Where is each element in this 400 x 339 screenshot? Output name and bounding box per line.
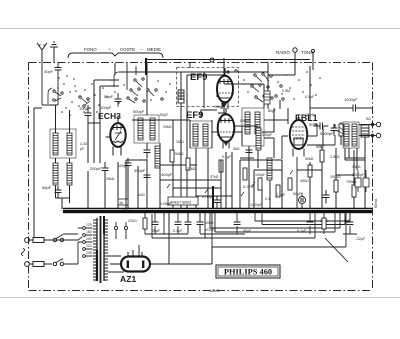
wave switch contacts left xyxy=(48,88,90,107)
capacitor 0.05 xyxy=(214,196,221,209)
svg-text:50kΩ: 50kΩ xyxy=(316,145,325,149)
detector diode coil left of EBL xyxy=(256,128,261,150)
antenna input capacitor 40pF xyxy=(55,62,62,75)
cathode wedge EF9 second xyxy=(223,141,229,146)
svg-text:pF: pF xyxy=(80,147,85,151)
svg-text:40pF: 40pF xyxy=(44,69,54,74)
svg-text:37kΩ: 37kΩ xyxy=(187,167,196,171)
svg-text:AZ1: AZ1 xyxy=(120,274,136,284)
svg-text:0.1μF: 0.1μF xyxy=(297,229,307,233)
short switch verticals top mid xyxy=(115,63,136,90)
mains terminal lower xyxy=(25,262,52,267)
svg-text:0.5M: 0.5M xyxy=(282,89,290,93)
oscillator scatter dots xyxy=(243,71,321,100)
extra tuning dots left xyxy=(57,75,98,116)
svg-text:5000pF: 5000pF xyxy=(320,131,334,136)
svg-text:400pF: 400pF xyxy=(161,172,173,177)
caps below bus extra 1 xyxy=(185,212,192,234)
svg-text:50μF: 50μF xyxy=(293,192,302,196)
cap 5000pF xyxy=(331,124,338,136)
resistor 50k center xyxy=(258,178,262,190)
svg-text:20kΩ: 20kΩ xyxy=(163,125,172,129)
selector voltage tiny labels xyxy=(86,223,92,255)
resistor 50k at EBL grid xyxy=(339,124,343,136)
power switch lower xyxy=(53,259,78,266)
page scan edge bottom xyxy=(0,297,400,299)
oscillator switch contact field right xyxy=(227,70,273,102)
resistor 50k right xyxy=(320,150,324,162)
svg-text:450Ω: 450Ω xyxy=(300,179,309,183)
svg-text:50μF: 50μF xyxy=(243,229,252,233)
osc padder dark element xyxy=(178,90,184,103)
frame oscillator transformer xyxy=(134,115,159,143)
svg-text:20μF: 20μF xyxy=(152,229,161,233)
grid wiring center xyxy=(115,63,295,209)
cathode wedge EF9 first xyxy=(221,103,227,108)
wire to 1000pF xyxy=(310,108,373,120)
bottom nested feedback wiring xyxy=(152,213,350,262)
extra vertical section wires xyxy=(190,84,365,209)
svg-text:100pF: 100pF xyxy=(262,133,273,137)
ground symbol top xyxy=(50,42,58,62)
tube EBL1 xyxy=(290,115,307,157)
wire mains to transformer xyxy=(52,234,78,240)
tube EF9 first xyxy=(217,68,233,109)
AZ1 heater wires xyxy=(108,212,212,272)
labels scattered small xyxy=(118,95,366,241)
tone network boxes top right xyxy=(355,170,369,192)
resistor column below EF9 second xyxy=(219,160,223,172)
svg-text:VOLG.: VOLG. xyxy=(205,228,216,232)
polarity tick marks xyxy=(167,170,293,196)
resistor far right xyxy=(352,185,356,197)
svg-text:200pF: 200pF xyxy=(90,166,102,171)
svg-text:300pF: 300pF xyxy=(134,168,146,173)
cap on ech3 grid xyxy=(85,105,92,124)
svg-text:200pF: 200pF xyxy=(214,105,225,109)
resistor 1M center xyxy=(276,185,280,197)
antenna xyxy=(37,43,47,62)
svg-text:0.1μF: 0.1μF xyxy=(276,193,286,197)
plate load wiring EBL1 xyxy=(282,124,345,209)
svg-text:30kΩ+30kΩ: 30kΩ+30kΩ xyxy=(170,200,191,205)
svg-text:RADIO: RADIO xyxy=(276,50,290,55)
svg-text:245: 245 xyxy=(86,251,92,255)
svg-text:50pF: 50pF xyxy=(160,113,169,117)
svg-text:750kΩ: 750kΩ xyxy=(346,180,357,184)
svg-text:1MΩ: 1MΩ xyxy=(176,140,184,144)
PHILIPS 460 nameplate box xyxy=(216,265,280,278)
terminal radio xyxy=(293,48,297,52)
terminal on top border xyxy=(210,58,214,62)
svg-text:220Ω: 220Ω xyxy=(128,219,137,223)
svg-text:FONO: FONO xyxy=(84,47,97,52)
bottom area horizontal link xyxy=(145,233,237,235)
svg-text:UZM3: UZM3 xyxy=(209,289,219,293)
resistor under EBL xyxy=(288,178,292,190)
svg-text:–: – xyxy=(140,47,143,52)
svg-text:220: 220 xyxy=(86,244,92,248)
detector coil xyxy=(267,158,272,180)
right side resistor network xyxy=(308,165,312,177)
tube EF9 second xyxy=(218,108,235,149)
svg-text:50pF: 50pF xyxy=(104,94,114,99)
svg-text:3-30: 3-30 xyxy=(80,142,87,146)
speaker coil xyxy=(361,125,369,137)
resistor below bus right xyxy=(322,212,326,234)
svg-text:MEDIE: MEDIE xyxy=(147,47,161,52)
svg-text:5Ω: 5Ω xyxy=(366,117,371,121)
cap bottom 2 xyxy=(175,222,182,225)
svg-text:68pF: 68pF xyxy=(42,185,52,190)
page scan edge top xyxy=(0,28,400,30)
power switch upper xyxy=(53,235,82,242)
bottom mid components between bus and border xyxy=(155,212,357,234)
svg-text:500pF: 500pF xyxy=(240,119,251,123)
tube AZ1 xyxy=(110,245,152,272)
capacitor 300pF xyxy=(144,170,151,184)
resistor 0.27M xyxy=(243,168,247,180)
svg-text:500pF: 500pF xyxy=(133,109,145,114)
svg-text:25kΩ: 25kΩ xyxy=(106,177,115,181)
thick cathode stem xyxy=(212,186,214,209)
padder trimmer caps xyxy=(144,143,151,159)
dashed shield box around EF9 stage xyxy=(177,68,239,107)
svg-text:7/5A: 7/5A xyxy=(123,209,131,213)
svg-text:100pF: 100pF xyxy=(255,173,266,177)
coil frame antenna transformer xyxy=(50,129,76,158)
AVC rail wires left xyxy=(88,80,119,163)
svg-text:14Ω: 14Ω xyxy=(138,193,145,197)
heater junction dots xyxy=(114,222,127,239)
svg-text:1000pF: 1000pF xyxy=(344,97,358,102)
svg-text:100pF: 100pF xyxy=(79,106,91,111)
midband horizontal wires xyxy=(126,120,365,209)
heavy supply bus line xyxy=(63,209,372,214)
svg-text:0.05μF: 0.05μF xyxy=(160,202,172,206)
svg-text:37kΩ: 37kΩ xyxy=(210,175,219,179)
antenna lead wire xyxy=(42,62,58,105)
svg-text:PHILIPS 460: PHILIPS 460 xyxy=(224,268,272,277)
svg-text:EF9: EF9 xyxy=(190,72,207,83)
cap bottom 5 xyxy=(347,222,354,225)
cap bottom 1 xyxy=(152,222,159,225)
cap bottom 3 xyxy=(234,222,241,225)
antenna coil L2 xyxy=(67,133,72,155)
svg-text:125: 125 xyxy=(86,223,92,227)
voltage selector taps xyxy=(52,227,93,264)
cap 200pF xyxy=(102,162,109,177)
svg-text:10kΩ: 10kΩ xyxy=(352,165,361,169)
capacitor 68pF xyxy=(55,186,62,199)
grid resistors right of ECH3 xyxy=(170,150,174,162)
cap 50pF ebl xyxy=(314,123,329,130)
svg-text:+: + xyxy=(108,47,111,52)
band bracket FONO COSTE MEDIE xyxy=(68,53,163,58)
svg-text:80pF: 80pF xyxy=(268,109,277,113)
svg-text:50pF: 50pF xyxy=(306,113,315,117)
antenna coil L4 xyxy=(67,163,72,185)
tuning shaft thick stub xyxy=(145,58,147,75)
band switch contact field xyxy=(114,72,163,103)
svg-text:0.1: 0.1 xyxy=(265,197,270,201)
mains terminal upper xyxy=(25,238,52,243)
electrolytic cap circle xyxy=(299,193,306,210)
caps below bus extra 2 xyxy=(197,212,204,234)
cap bottom 4 xyxy=(307,222,314,225)
cap 100pF ech3 xyxy=(125,158,132,172)
svg-text:–32μF: –32μF xyxy=(355,237,366,241)
long top rail wires xyxy=(119,58,310,108)
left wiring xyxy=(34,105,70,238)
schematic dashed border frame xyxy=(29,63,373,291)
oscillator coil second xyxy=(150,118,155,140)
svg-text:1000pF: 1000pF xyxy=(250,203,263,207)
coil osc lower xyxy=(155,146,160,168)
osc anode resistor hatched xyxy=(264,85,284,104)
antenna coil L3 xyxy=(53,163,58,185)
svg-text:50kΩ: 50kΩ xyxy=(175,152,184,156)
svg-text:3A: 3A xyxy=(119,201,124,205)
terminal tono stem xyxy=(295,49,315,75)
svg-text:100pF: 100pF xyxy=(100,105,112,110)
output terminals xyxy=(359,122,381,137)
resistor mid right xyxy=(334,180,338,192)
svg-text:1.5kΩ: 1.5kΩ xyxy=(330,155,340,159)
cap right xyxy=(323,190,330,204)
left long wires to bus xyxy=(42,123,128,209)
capacitor 50pF grid xyxy=(115,93,122,107)
cap 1000pF xyxy=(347,105,363,112)
svg-text:50kΩ: 50kΩ xyxy=(305,157,314,161)
power transformer xyxy=(93,216,108,283)
svg-text:5kΩ: 5kΩ xyxy=(233,147,240,151)
IF trimmers xyxy=(246,146,253,158)
resistor below EF9 xyxy=(186,158,190,170)
fuse label xyxy=(118,199,128,205)
IF transformer 2 xyxy=(242,108,264,146)
antenna coil L1 xyxy=(53,133,58,155)
tube ECH3 xyxy=(106,116,126,156)
resistor 30k+30k boxed xyxy=(168,197,198,205)
mains squiggle xyxy=(22,248,25,256)
svg-text:150kΩ: 150kΩ xyxy=(330,175,341,179)
right wiring xyxy=(297,145,365,209)
resistor below bus left xyxy=(143,212,147,234)
oscillator coil pair xyxy=(138,118,143,140)
output transformer xyxy=(343,122,359,148)
extra tiny value labels texture xyxy=(80,89,371,213)
IF transformer 1 xyxy=(190,121,212,148)
svg-text:200: 200 xyxy=(86,237,92,241)
svg-text:160: 160 xyxy=(86,230,92,234)
switch scatter dots left xyxy=(63,79,171,109)
svg-text:60mA: 60mA xyxy=(374,198,378,208)
svg-text:COSTE: COSTE xyxy=(120,47,135,52)
svg-text:10kΩ: 10kΩ xyxy=(205,221,214,225)
svg-text:100pF: 100pF xyxy=(118,164,129,168)
svg-text:0.1μF: 0.1μF xyxy=(222,155,232,159)
